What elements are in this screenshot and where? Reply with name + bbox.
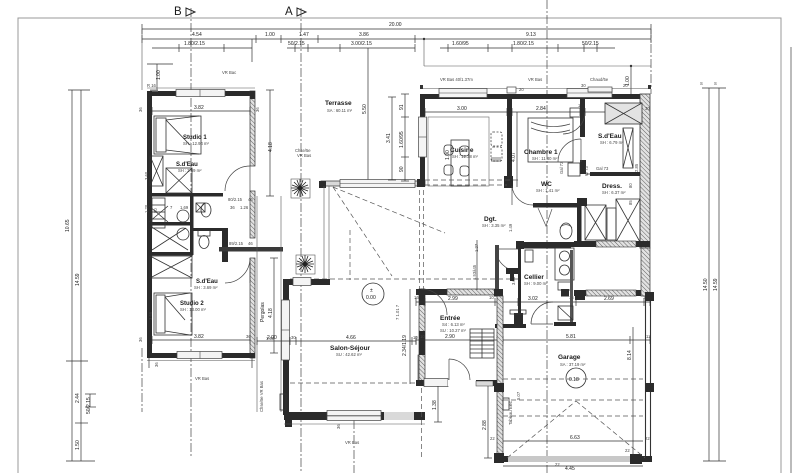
- svg-text:36: 36: [255, 107, 260, 112]
- svg-text:1.00: 1.00: [265, 32, 275, 38]
- svg-text:1.60/95: 1.60/95: [452, 41, 469, 47]
- svg-text:SH : 3.69 m²: SH : 3.69 m²: [194, 285, 218, 290]
- svg-text:W 73: W 73: [584, 166, 589, 176]
- svg-text:SH : 12.94 m²: SH : 12.94 m²: [183, 141, 209, 146]
- svg-text:S4 : 6.13 m²: S4 : 6.13 m²: [442, 322, 465, 327]
- svg-text:80: 80: [628, 183, 633, 188]
- svg-text:Terrasse: Terrasse: [325, 100, 352, 107]
- svg-text:3.00: 3.00: [457, 106, 467, 112]
- svg-text:Chse/5e VR Bas: Chse/5e VR Bas: [259, 381, 264, 412]
- svg-text:9.13: 9.13: [526, 32, 536, 38]
- svg-text:1.27: 1.27: [474, 243, 479, 252]
- svg-text:2.88: 2.88: [482, 420, 488, 430]
- svg-text:80/2.15: 80/2.15: [228, 197, 243, 202]
- svg-text:S: S: [700, 81, 703, 86]
- svg-text:22: 22: [625, 448, 630, 453]
- svg-text:1.00: 1.00: [156, 70, 162, 80]
- svg-text:0.00: 0.00: [366, 295, 376, 301]
- svg-text:VR Bas: VR Bas: [345, 440, 359, 445]
- svg-text:46: 46: [248, 241, 253, 246]
- svg-text:SH : 1.41 m²: SH : 1.41 m²: [536, 188, 560, 193]
- svg-text:VR Bas 40/1.37m: VR Bas 40/1.37m: [440, 77, 473, 82]
- svg-text:22: 22: [645, 436, 650, 441]
- svg-text:4.45: 4.45: [565, 466, 575, 472]
- svg-text:SU : 42.62 m²: SU : 42.62 m²: [336, 352, 362, 357]
- svg-text:3.41: 3.41: [386, 133, 392, 143]
- svg-text:36: 36: [138, 107, 143, 112]
- svg-text:30: 30: [581, 83, 586, 88]
- svg-text:3.60: 3.60: [144, 171, 149, 180]
- svg-text:14.50: 14.50: [703, 278, 709, 291]
- svg-text:2.84: 2.84: [536, 106, 546, 112]
- svg-text:1.26: 1.26: [240, 205, 249, 210]
- svg-text:5.07: 5.07: [516, 391, 521, 400]
- svg-text:10: 10: [420, 334, 425, 339]
- svg-text:Entrée: Entrée: [440, 315, 461, 322]
- svg-text:16: 16: [414, 295, 419, 300]
- svg-text:22: 22: [490, 436, 495, 441]
- svg-text:SA : 60.11 m²: SA : 60.11 m²: [327, 108, 353, 113]
- svg-text:4.66: 4.66: [346, 335, 356, 341]
- svg-text:5.81: 5.81: [566, 334, 576, 340]
- svg-text:A: A: [285, 6, 293, 18]
- svg-text:2.44: 2.44: [75, 393, 81, 403]
- svg-text:Pergolas: Pergolas: [260, 302, 266, 322]
- svg-text:36: 36: [230, 205, 235, 210]
- svg-text:3.66: 3.66: [148, 311, 153, 320]
- svg-text:Gal 73: Gal 73: [596, 166, 609, 171]
- svg-text:1.20: 1.20: [144, 204, 149, 213]
- svg-text:Tableau Elec: Tableau Elec: [508, 401, 513, 425]
- svg-text:Chambre 1: Chambre 1: [524, 149, 558, 156]
- svg-text:3.86: 3.86: [359, 32, 369, 38]
- svg-text:30: 30: [645, 106, 650, 111]
- svg-text:4.18: 4.18: [268, 308, 274, 318]
- svg-text:14.59: 14.59: [75, 273, 81, 286]
- svg-text:2.00: 2.00: [267, 335, 277, 341]
- svg-text:Cuisine: Cuisine: [450, 147, 474, 154]
- svg-text:S: S: [714, 81, 717, 86]
- svg-text:SH : 6.79 m²: SH : 6.79 m²: [600, 140, 624, 145]
- svg-text:7 1.01 7: 7 1.01 7: [395, 304, 400, 320]
- svg-text:VR Bac: VR Bac: [222, 70, 236, 75]
- svg-text:91: 91: [399, 104, 405, 110]
- svg-text:1.53à45: 1.53à45: [472, 264, 477, 280]
- svg-text:Gal 73: Gal 73: [559, 161, 564, 174]
- svg-text:SH : 3.35 m²: SH : 3.35 m²: [482, 223, 506, 228]
- svg-text:1.50: 1.50: [75, 440, 81, 450]
- svg-text:WC: WC: [541, 181, 552, 188]
- svg-text:1.47: 1.47: [299, 32, 309, 38]
- svg-text:36: 36: [246, 334, 251, 339]
- svg-text:1.80/2.15: 1.80/2.15: [513, 41, 534, 47]
- svg-text:6.63: 6.63: [570, 435, 580, 441]
- svg-text:2.90: 2.90: [445, 334, 455, 340]
- svg-text:Dress.: Dress.: [602, 183, 622, 190]
- svg-text:2.69: 2.69: [604, 296, 614, 302]
- svg-text:89/2.15: 89/2.15: [229, 241, 244, 246]
- svg-text:36: 36: [138, 337, 143, 342]
- svg-text:14.59: 14.59: [713, 278, 719, 291]
- svg-text:1.60/95: 1.60/95: [399, 131, 405, 148]
- svg-text:Cellier: Cellier: [524, 274, 544, 281]
- svg-text:20: 20: [623, 83, 628, 88]
- svg-text:B: B: [174, 6, 182, 18]
- svg-text:Dgt.: Dgt.: [484, 216, 497, 223]
- svg-text:3.02: 3.02: [528, 296, 538, 302]
- svg-text:50/2.15: 50/2.15: [86, 397, 92, 414]
- svg-text:SH : 12.38 m²: SH : 12.38 m²: [452, 154, 478, 159]
- svg-text:4.07: 4.07: [511, 152, 517, 162]
- svg-text:3.82: 3.82: [194, 334, 204, 340]
- svg-text:SH : 13.00 m²: SH : 13.00 m²: [180, 307, 206, 312]
- svg-text:10: 10: [489, 295, 494, 300]
- svg-text:0.18: 0.18: [569, 377, 579, 383]
- svg-text:SH : 11.80 m²: SH : 11.80 m²: [532, 156, 558, 161]
- svg-text:VR Bas: VR Bas: [195, 376, 209, 381]
- svg-text:30: 30: [291, 335, 296, 340]
- svg-text:46: 46: [248, 197, 253, 202]
- svg-text:20: 20: [519, 87, 524, 92]
- svg-text:4.54: 4.54: [192, 32, 202, 38]
- svg-text:50/2.15: 50/2.15: [582, 41, 599, 47]
- svg-text:4.18: 4.18: [268, 142, 274, 152]
- svg-text:10.65: 10.65: [65, 219, 71, 232]
- svg-text:36: 36: [336, 424, 341, 429]
- svg-text:1.49: 1.49: [508, 223, 513, 232]
- svg-text:50/2.15: 50/2.15: [288, 41, 305, 47]
- svg-text:Garage: Garage: [558, 354, 581, 361]
- svg-text:Chaud/5e: Chaud/5e: [590, 77, 609, 82]
- svg-text:2.34/1.19: 2.34/1.19: [402, 335, 408, 356]
- svg-text:SU : 10.27 m²: SU : 10.27 m²: [440, 328, 466, 333]
- svg-text:R 16: R 16: [147, 83, 157, 88]
- svg-text:20.00: 20.00: [389, 22, 402, 28]
- svg-text:VR Bas: VR Bas: [297, 153, 311, 158]
- svg-text:2.85: 2.85: [634, 163, 639, 172]
- svg-text:SA : 37.19 m²: SA : 37.19 m²: [560, 362, 586, 367]
- svg-text:8.14: 8.14: [627, 350, 633, 360]
- svg-text:1.69: 1.69: [180, 205, 189, 210]
- svg-text:S.d'Eau: S.d'Eau: [598, 133, 622, 140]
- svg-text:5.50: 5.50: [362, 104, 368, 114]
- svg-text:3.00/2.15: 3.00/2.15: [351, 41, 372, 47]
- svg-text:VR Bas: VR Bas: [528, 77, 542, 82]
- svg-text:Salon-Séjour: Salon-Séjour: [330, 345, 371, 352]
- svg-text:SH : 9.00 m²: SH : 9.00 m²: [524, 281, 548, 286]
- svg-text:85: 85: [628, 200, 633, 205]
- svg-text:SH : 6.37 m²: SH : 6.37 m²: [602, 190, 626, 195]
- svg-text:3.82: 3.82: [194, 105, 204, 111]
- svg-text:2.99: 2.99: [448, 296, 458, 302]
- svg-text:36: 36: [154, 362, 159, 367]
- svg-text:SH : 3.69 m²: SH : 3.69 m²: [178, 168, 202, 173]
- svg-text:1.80/2.15: 1.80/2.15: [184, 41, 205, 47]
- svg-text:90: 90: [399, 166, 405, 172]
- svg-text:1.38: 1.38: [432, 400, 438, 410]
- svg-text:90: 90: [153, 208, 158, 213]
- svg-text:±: ±: [370, 288, 373, 294]
